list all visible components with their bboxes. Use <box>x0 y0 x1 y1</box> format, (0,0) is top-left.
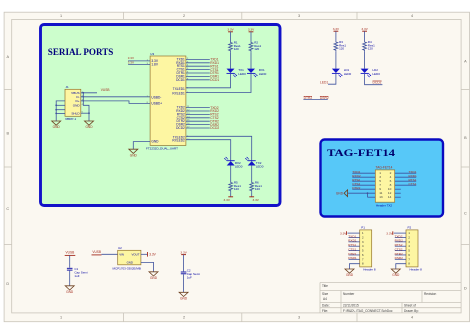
wire tag pin 7 <box>352 184 375 186</box>
wire P2 pin3 <box>395 241 406 243</box>
svg-text:1: 1 <box>60 316 62 320</box>
svg-text:1: 1 <box>60 14 62 18</box>
svg-text:P2: P2 <box>408 226 412 230</box>
wire CTS1 stub <box>186 69 210 71</box>
wire left shield bus of J1 <box>56 101 65 121</box>
wire tag pin 12 stub <box>395 192 401 194</box>
svg-text:Revision: Revision <box>424 292 436 296</box>
SERIAL PORTS region box <box>41 25 281 206</box>
power 3.3V above R2 <box>249 31 254 33</box>
wire DTR2 stub <box>186 120 210 122</box>
connector P2 Header 8 <box>406 230 418 267</box>
ground at C2 <box>179 292 188 296</box>
power 3.3V below R6 <box>249 196 254 198</box>
wire U3 to LED TX2 <box>186 136 252 160</box>
svg-text:MCP1703-3302E/MB: MCP1703-3302E/MB <box>113 266 141 270</box>
svg-text:RXLED1: RXLED1 <box>172 92 185 96</box>
wire tag pin 1 <box>352 172 375 174</box>
wire VUSB to U2 VIN <box>102 253 118 255</box>
connector P1 Header 8 <box>360 230 372 267</box>
wire P1 pin8 to ground <box>350 264 360 269</box>
wire tag pin 4 <box>395 176 417 178</box>
svg-text:3.3V: 3.3V <box>128 61 134 65</box>
svg-text:DCD2: DCD2 <box>210 126 219 130</box>
svg-text:3.3V: 3.3V <box>361 27 368 31</box>
wire U3 to LED RX2 <box>186 140 231 161</box>
wire tag pin 10 stub <box>395 188 401 190</box>
wire tag pin 13 <box>368 196 376 198</box>
ground at J1 right <box>85 121 94 125</box>
LED RX1 <box>247 69 255 73</box>
ground at P2 <box>391 269 400 273</box>
svg-text:3.3V: 3.3V <box>248 28 255 32</box>
wire U3 GND pin to ground <box>133 142 150 150</box>
wire D+ to U3 USBD+ <box>81 101 150 104</box>
svg-text:File:: File: <box>322 309 328 313</box>
wire RTS1 stub <box>186 65 210 67</box>
svg-text:CTS1: CTS1 <box>409 182 417 186</box>
svg-text:VUSB: VUSB <box>66 251 75 255</box>
svg-text:GND: GND <box>53 125 61 129</box>
wire 3.3V to R2 <box>250 32 252 41</box>
wire P1 pin2 <box>349 236 360 238</box>
svg-text:GND: GND <box>336 191 344 195</box>
svg-text:Header 8: Header 8 <box>363 267 376 271</box>
svg-text:RXLED2: RXLED2 <box>172 139 185 143</box>
svg-text:3.3V: 3.3V <box>128 56 134 60</box>
svg-text:GND: GND <box>150 276 158 280</box>
svg-text:DTR2: DTR2 <box>304 96 313 100</box>
svg-text:LED0: LED0 <box>235 165 243 169</box>
wire P2 pin4 <box>395 245 406 247</box>
wire P1 pin5 <box>349 250 360 252</box>
wire P2 pin7 <box>395 258 406 260</box>
svg-text:GND: GND <box>130 153 138 157</box>
wire DSR2 stub <box>186 124 210 126</box>
svg-text:4: 4 <box>411 316 413 320</box>
svg-text:A: A <box>7 55 10 59</box>
wire P1 pin6 <box>349 254 360 256</box>
svg-text:GND: GND <box>73 103 81 107</box>
svg-text:120: 120 <box>254 47 259 51</box>
svg-text:120: 120 <box>234 47 239 51</box>
wire LED TX2 to R6 <box>251 165 253 181</box>
svg-text:14: 14 <box>388 195 392 199</box>
svg-text:GND: GND <box>85 125 93 129</box>
svg-text:D: D <box>464 287 467 291</box>
svg-text:U3: U3 <box>150 52 154 56</box>
wire P2 pin1 3.3V <box>394 232 406 234</box>
power 3.3V below R5 <box>228 196 233 198</box>
wire U3 1.8V supply pin <box>128 64 150 66</box>
svg-text:68587-1: 68587-1 <box>65 117 76 121</box>
connector J2 TAG-FET14 header <box>375 170 394 202</box>
svg-text:3.3V: 3.3V <box>333 27 340 31</box>
title block text <box>322 284 436 313</box>
svg-text:D: D <box>6 282 9 286</box>
svg-text:GND: GND <box>392 273 400 277</box>
wire shield stub 2 <box>56 104 65 106</box>
svg-text:DTR2: DTR2 <box>352 186 360 190</box>
svg-text:DSR1: DSR1 <box>348 256 357 260</box>
svg-text:LED0: LED0 <box>372 72 380 76</box>
svg-text:2: 2 <box>183 316 185 320</box>
svg-text:120: 120 <box>368 47 373 51</box>
wire D- to U3 USBD- <box>81 96 150 98</box>
svg-text:3.3V: 3.3V <box>180 250 187 254</box>
ground at J1 left <box>52 121 61 125</box>
svg-text:B: B <box>464 136 467 140</box>
svg-text:Header 8: Header 8 <box>410 267 423 271</box>
svg-text:USBD+: USBD+ <box>151 101 162 105</box>
svg-text:Date:: Date: <box>322 304 330 308</box>
wire U2 GND to ground <box>141 262 154 271</box>
wire U2 VOUT to 3.3V <box>141 253 148 255</box>
wire P1 pin4 <box>349 245 360 247</box>
svg-text:1uF: 1uF <box>187 275 192 279</box>
svg-text:A4: A4 <box>323 297 327 301</box>
wire TXD1 stub <box>186 58 210 60</box>
svg-text:8: 8 <box>408 262 410 266</box>
wire VBUS to VUSB label <box>81 92 97 94</box>
wire R5 to 3.3V <box>230 192 232 197</box>
svg-text:GND: GND <box>180 297 188 301</box>
wire P2 pin8 to ground <box>396 264 406 269</box>
wire 3.3V to R1 <box>230 32 232 41</box>
svg-text:U2: U2 <box>118 246 122 250</box>
svg-text:3.3V: 3.3V <box>149 253 156 257</box>
LED RX2 <box>227 160 235 162</box>
LED TX2 <box>248 160 256 162</box>
wire LD1 to LED1 label <box>328 73 336 84</box>
resistor R5 <box>229 181 233 192</box>
TAG-FET14 region box <box>321 140 444 217</box>
svg-text:3: 3 <box>298 316 300 320</box>
svg-text:SERIAL PORTS: SERIAL PORTS <box>48 47 114 58</box>
wire DCD2 stub <box>186 127 210 129</box>
svg-text:B: B <box>7 132 10 136</box>
svg-text:Title: Title <box>322 284 328 288</box>
wire shield stub 4 <box>56 112 65 114</box>
ground at tag connector <box>344 190 348 197</box>
wire R3 to LED LD1 <box>335 52 337 69</box>
op-amp/IC U3 FT2232D_DUAL_UART <box>150 56 186 145</box>
wire P1 pin1 3.3V <box>348 232 360 234</box>
svg-text:F:\R&D\..\TAG_CONNECT.SchDoc: F:\R&D\..\TAG_CONNECT.SchDoc <box>343 309 393 313</box>
svg-text:P1: P1 <box>361 226 365 230</box>
wire R6 to 3.3V <box>251 192 253 197</box>
svg-text:120: 120 <box>255 187 260 191</box>
svg-text:C: C <box>6 207 9 211</box>
svg-text:FT2232D_DUAL_UART: FT2232D_DUAL_UART <box>146 146 178 150</box>
wire tag pin 3 <box>352 176 375 178</box>
svg-text:GND: GND <box>346 273 354 277</box>
resistor R2 <box>249 41 253 52</box>
svg-text:GND: GND <box>66 290 74 294</box>
resistor R3 <box>334 41 338 52</box>
wire TXD2 stub <box>186 107 210 109</box>
connector J1 (USB, 68587-1) <box>65 89 81 116</box>
svg-text:VUSB: VUSB <box>92 250 101 254</box>
svg-text:VIN: VIN <box>119 253 124 257</box>
wire tag pin 9 <box>352 188 375 190</box>
svg-text:2: 2 <box>183 14 185 18</box>
resistor R6 <box>250 181 254 192</box>
wire VUSB to C1 <box>69 255 71 267</box>
svg-text:TXLED1: TXLED1 <box>173 87 185 91</box>
wire R4 to LED LD2 <box>364 52 366 69</box>
svg-text:DCD2: DCD2 <box>373 81 382 85</box>
svg-text:3.3V: 3.3V <box>253 198 260 202</box>
ground at U2 <box>149 272 158 276</box>
svg-text:DCD1: DCD1 <box>176 78 185 82</box>
wire 3.3V to R4 <box>364 31 366 40</box>
svg-text:LED0: LED0 <box>344 72 352 76</box>
pin numbers J1 <box>82 91 84 113</box>
svg-text:LED1: LED1 <box>320 81 328 85</box>
wire RXD2 stub <box>186 110 210 112</box>
svg-text:DSR2: DSR2 <box>395 256 404 260</box>
wire gnd tie <box>367 193 369 197</box>
wire tag pin 5 <box>352 180 375 182</box>
capacitor C1 Cap Semi 1uF <box>67 267 73 269</box>
wire tag pin 6 <box>395 180 417 182</box>
wire LED RX2 to R5 <box>230 165 232 181</box>
wire 3.3V to C2 <box>183 255 185 272</box>
power 3.3V at U2 output <box>147 252 149 257</box>
svg-text:3: 3 <box>298 14 300 18</box>
wire 3.3V to R3 <box>335 31 337 40</box>
ground at C1 <box>65 286 74 290</box>
wire CTS2 stub <box>186 117 210 119</box>
svg-text:D+: D+ <box>76 99 80 103</box>
power 3.3V at C2 <box>181 254 186 256</box>
wire R1 to LED TX1 <box>230 52 232 68</box>
svg-text:Header 7X2: Header 7X2 <box>376 204 392 208</box>
wire RXD1 stub <box>186 62 210 64</box>
power 3.3V above R1 <box>228 31 233 33</box>
svg-text:Size: Size <box>322 292 328 296</box>
svg-text:USBD-: USBD- <box>151 95 161 99</box>
wire tag pin 11 to GND <box>348 192 376 194</box>
wire tag pin 2 <box>395 172 417 174</box>
wire P1 pin7 <box>349 258 360 260</box>
wire SHLD to GND vertical <box>81 112 89 114</box>
power 3.3V above R3 <box>334 30 339 32</box>
pin numbers U3 <box>147 58 191 141</box>
wire tag pin 8 <box>395 184 417 186</box>
LED TX1 <box>227 69 235 73</box>
svg-text:SHLD: SHLD <box>71 111 80 115</box>
svg-text:TAG-FET14: TAG-FET14 <box>376 165 393 169</box>
wire P2 pin6 <box>395 254 406 256</box>
svg-text:8: 8 <box>362 262 364 266</box>
wire C1 to ground <box>69 271 71 286</box>
svg-text:1uF: 1uF <box>74 274 79 278</box>
wire LD2 to DCD2 label <box>365 73 383 85</box>
svg-text:1.8V: 1.8V <box>151 63 158 67</box>
wire LED RX1 to U3 <box>186 73 251 92</box>
wire C2 to ground <box>183 274 185 292</box>
svg-text:LED0: LED0 <box>238 72 246 76</box>
LED LD2 <box>361 69 369 73</box>
wire LED TX1 to U3 <box>186 73 231 88</box>
power 3.3V above R4 <box>362 30 367 32</box>
ground at P1 <box>345 269 354 273</box>
svg-text:4: 4 <box>411 14 413 18</box>
svg-text:C: C <box>464 212 467 216</box>
wire shield stub 3 <box>56 109 65 111</box>
regulator U2 MCP1703-3302E/MB <box>118 250 141 264</box>
svg-text:Drawn By:: Drawn By: <box>404 309 419 313</box>
wire DTR2/DSR2 loopback <box>303 99 327 101</box>
ground at U3 <box>129 149 138 153</box>
wire U3 3.3V supply pin <box>128 60 150 62</box>
capacitor C2 Cap Semi 1uF <box>181 271 187 273</box>
svg-text:VUSB: VUSB <box>101 88 110 92</box>
svg-text:120: 120 <box>234 187 239 191</box>
wire DTR1 stub <box>186 72 210 74</box>
svg-text:VOUT: VOUT <box>131 253 139 257</box>
svg-text:GND: GND <box>127 260 133 264</box>
wire VBUS down to GND net <box>83 93 89 121</box>
svg-text:Number: Number <box>343 292 355 296</box>
LED LD1 <box>332 69 340 73</box>
svg-text:120: 120 <box>339 47 344 51</box>
wire P2 pin2 <box>395 236 406 238</box>
wire tag pin 14 stub <box>395 196 401 198</box>
svg-text:A: A <box>464 60 467 64</box>
wire DCD1 stub <box>186 79 210 81</box>
wire RTS2 stub <box>186 113 210 115</box>
svg-text:LED0: LED0 <box>259 72 267 76</box>
svg-text:Sheet of: Sheet of <box>404 304 416 308</box>
svg-text:3.3V: 3.3V <box>227 28 234 32</box>
svg-text:J1: J1 <box>66 85 70 89</box>
svg-text:TAG-FET14: TAG-FET14 <box>327 148 395 159</box>
resistor R1 <box>229 41 233 52</box>
svg-text:3.3V: 3.3V <box>224 198 231 202</box>
svg-text:22/11/2015: 22/11/2015 <box>343 304 359 308</box>
wire DSR1 stub <box>186 75 210 77</box>
wire P1 pin3 <box>349 241 360 243</box>
svg-text:DCD1: DCD1 <box>210 78 219 82</box>
resistor R4 <box>363 41 367 52</box>
svg-text:13: 13 <box>379 195 383 199</box>
wire P2 pin5 <box>395 250 406 252</box>
svg-text:DCD2: DCD2 <box>176 126 185 130</box>
wire R2 to LED RX1 <box>250 52 252 68</box>
svg-text:GND: GND <box>151 140 159 144</box>
svg-text:DSR2: DSR2 <box>320 96 329 100</box>
title block <box>320 283 461 313</box>
svg-text:LED0: LED0 <box>256 165 264 169</box>
